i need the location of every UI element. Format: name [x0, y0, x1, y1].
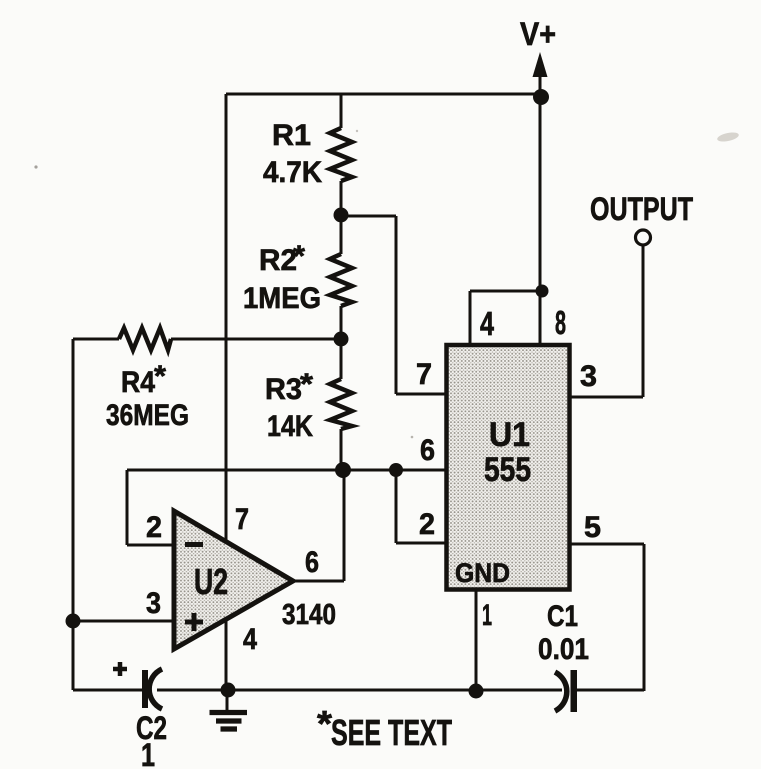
svg-text:0.01: 0.01 [538, 633, 589, 666]
svg-text:C1: C1 [547, 600, 578, 633]
wire: feedback down to op-amp pin 2 [127, 470, 179, 545]
OUTPUT terminal circle [636, 230, 651, 245]
wire: R1/R2 node to 555 pin 7 [341, 216, 446, 394]
wire: 555 pin 3 to output [570, 396, 643, 399]
paper smudge top right [716, 131, 739, 143]
node: junction R3/op-amp output [335, 462, 351, 478]
wire: node R3 to 555 pin 6 horizontal [127, 469, 446, 472]
node: junction 555 pin6/pin2 [389, 463, 403, 477]
svg-text:555: 555 [484, 451, 531, 489]
wire: R2 top lead [340, 216, 343, 254]
resistor R1 zigzag [330, 128, 352, 181]
wire: op-amp pin 3 input [73, 620, 179, 623]
wire: left vertical through op-amp (pin7 top / pin4 bottom) [225, 94, 228, 688]
svg-text:R4: R4 [121, 366, 155, 399]
V+ arrowhead [533, 52, 548, 77]
capacitor C2 straight plate [142, 670, 148, 708]
svg-text:5: 5 [584, 511, 601, 544]
node: junction V+ rail [533, 89, 549, 105]
op-amp U2 minus input symbol [185, 542, 203, 547]
svg-text:OUTPUT: OUTPUT [590, 191, 693, 227]
paper speck mid [411, 436, 414, 439]
svg-text:1: 1 [141, 737, 155, 769]
svg-text:R3: R3 [265, 373, 302, 406]
svg-text:3: 3 [146, 587, 161, 620]
paper speck top [356, 130, 358, 132]
wire: R3 top lead [340, 339, 343, 379]
wire: R1 bottom lead [340, 181, 343, 216]
svg-text:4: 4 [243, 623, 257, 656]
wire: top supply rail [226, 93, 540, 96]
svg-text:R1: R1 [272, 119, 311, 152]
svg-text:*: * [300, 368, 313, 401]
resistor R3 zigzag [330, 379, 352, 429]
capacitor C2 polarity plus [113, 662, 127, 676]
wire: R4 horizontal net [73, 338, 342, 341]
wire: 555 pin 5 to C1 right [570, 544, 644, 691]
svg-text:SEE TEXT: SEE TEXT [331, 712, 452, 753]
svg-text:7: 7 [235, 503, 249, 536]
wire: R3 bottom lead [340, 429, 343, 470]
svg-text:4: 4 [480, 305, 494, 342]
capacitor C1 straight plate [571, 670, 578, 712]
node: junction 555 pin1 / bottom rail [469, 684, 484, 699]
wire: bottom rail right of C1 [577, 689, 644, 692]
wire: output terminal vertical [642, 246, 645, 397]
op-amp U2 triangle [174, 511, 293, 649]
node: junction ground [221, 683, 236, 698]
IC U1 555 body [447, 345, 570, 590]
wire: bottom rail C2 to C1 [157, 689, 562, 692]
svg-text:*: * [317, 703, 332, 744]
svg-text:1: 1 [482, 599, 492, 632]
svg-text:U2: U2 [194, 561, 228, 602]
node: junction R2/R3/R4 [334, 332, 349, 347]
node: junction pin4/pin8 [536, 285, 549, 298]
svg-text:*: * [154, 360, 166, 393]
resistor R2 zigzag [330, 254, 352, 306]
svg-text:14K: 14K [267, 410, 313, 443]
wire: op-amp output pin 6 up to node [293, 470, 344, 581]
node: junction R1/R2 [334, 208, 349, 223]
wire: R1 top lead [340, 94, 343, 128]
svg-text:3140: 3140 [282, 599, 336, 631]
op-amp U2 plus input symbol [185, 613, 203, 631]
paper speck left [34, 165, 37, 168]
wire: left vertical rail [72, 339, 75, 690]
capacitor C1 curved plate [555, 672, 567, 711]
wire: V+ vertical down to 555 pin 8 [539, 97, 542, 344]
svg-text:GND: GND [455, 558, 510, 588]
svg-text:R2: R2 [259, 244, 297, 277]
wire: node to 555 pin 2 [396, 470, 446, 543]
resistor R4 zigzag (horizontal) [119, 328, 171, 350]
svg-text:2: 2 [146, 511, 162, 544]
wire: R2 bottom lead [340, 306, 343, 339]
svg-text:U1: U1 [489, 416, 530, 454]
capacitor C2 curved plate [149, 669, 162, 709]
svg-text:3: 3 [580, 360, 597, 393]
svg-text:4.7K: 4.7K [263, 156, 322, 189]
wire: 555 pin 4 jog [470, 291, 542, 344]
svg-text:6: 6 [305, 546, 319, 579]
ground symbol [210, 690, 248, 729]
wire: V+ stub [539, 70, 542, 97]
svg-text:36MEG: 36MEG [106, 399, 189, 432]
wire: 555 pin 1 down [475, 590, 478, 690]
svg-text:V+: V+ [520, 16, 556, 52]
svg-text:2: 2 [419, 508, 435, 541]
wire: bottom rail left of C2 [73, 689, 142, 692]
svg-text:6: 6 [420, 434, 435, 467]
svg-text:7: 7 [416, 358, 432, 391]
svg-text:1MEG: 1MEG [243, 282, 321, 315]
svg-text:*: * [293, 240, 305, 273]
svg-text:8: 8 [555, 304, 566, 341]
node: junction pin3 wire left rail [66, 614, 81, 629]
